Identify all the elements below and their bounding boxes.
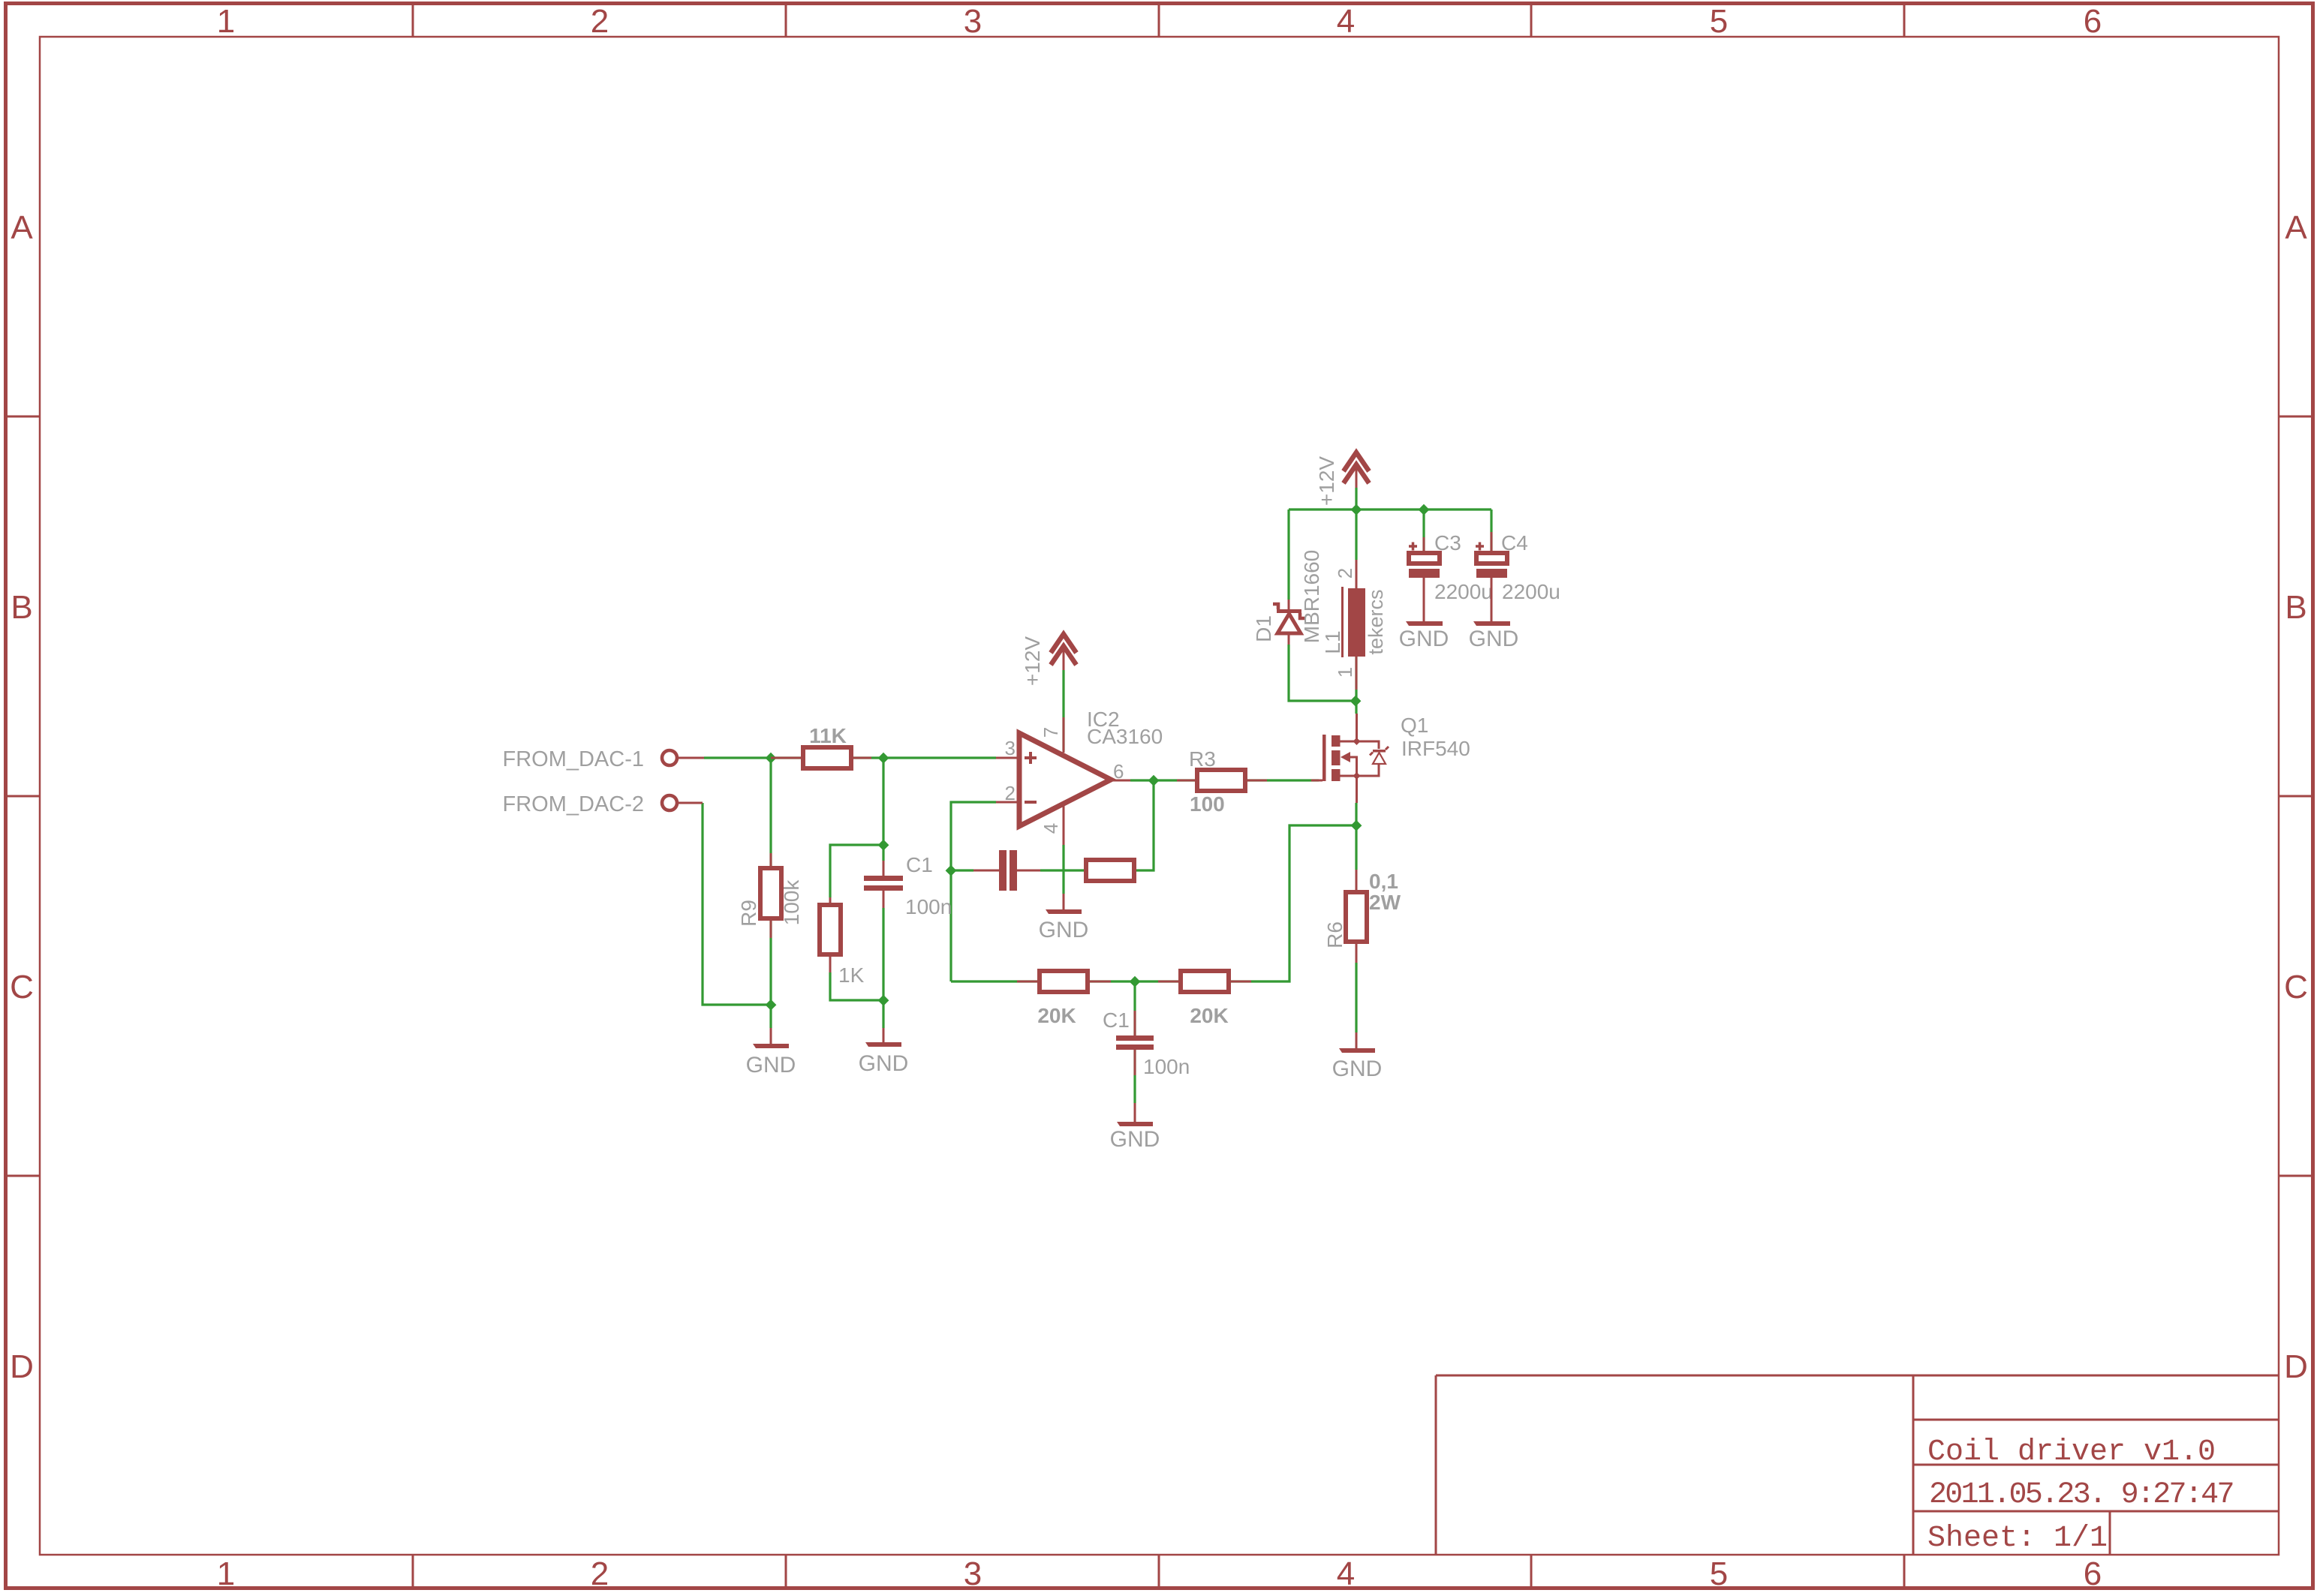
svg-text:B: B — [11, 589, 32, 626]
wire net pin7 supply — [1062, 670, 1064, 750]
svg-text:4: 4 — [1040, 823, 1062, 834]
svg-text:C: C — [10, 969, 34, 1005]
resistor 11K — [771, 724, 871, 768]
svg-text:20K: 20K — [1190, 1004, 1228, 1027]
svg-text:Sheet: 1/1: Sheet: 1/1 — [1927, 1522, 2108, 1555]
capacitor C4 — [1476, 531, 1560, 621]
ground GND (C1a) — [859, 1028, 909, 1076]
svg-text:3: 3 — [964, 1555, 982, 1592]
column labels top 1-6 — [217, 3, 2102, 40]
svg-text:100k: 100k — [780, 879, 803, 926]
svg-text:A: A — [11, 209, 33, 246]
svg-text:R6: R6 — [1323, 921, 1347, 948]
svg-text:0,1: 0,1 — [1369, 870, 1398, 893]
svg-text:MBR1660: MBR1660 — [1300, 550, 1323, 644]
svg-text:B: B — [2285, 589, 2306, 626]
svg-text:IRF540: IRF540 — [1401, 737, 1470, 760]
svg-text:1: 1 — [217, 3, 235, 40]
svg-text:4: 4 — [1337, 1555, 1355, 1592]
svg-text:7: 7 — [1040, 727, 1062, 738]
svg-text:C1: C1 — [906, 853, 933, 876]
svg-text:3: 3 — [964, 3, 982, 40]
svg-text:GND: GND — [1399, 627, 1449, 651]
wire net 1K branch — [830, 845, 883, 1000]
junction node J (drain-L1-D1) — [1350, 696, 1362, 707]
junction node G (pin2 feedback) — [946, 865, 957, 876]
capacitor C1 (input) — [864, 853, 952, 918]
svg-text:2: 2 — [1334, 568, 1356, 579]
svg-text:R9: R9 — [737, 900, 760, 927]
resistor R3 — [1177, 747, 1267, 816]
svg-text:GND: GND — [1110, 1127, 1160, 1152]
svg-text:3: 3 — [1005, 737, 1016, 759]
ground GND (C4) — [1469, 621, 1519, 651]
svg-text:GND: GND — [1469, 627, 1519, 651]
svg-text:6: 6 — [2084, 3, 2102, 40]
column labels bottom 1-6 — [217, 1555, 2102, 1592]
wire net R9 column — [769, 758, 772, 1028]
junction node B (11K-C1a top) — [878, 753, 889, 764]
pad FROM_DAC-2 — [502, 792, 703, 816]
resistor 20K (right) — [1158, 971, 1251, 1027]
svg-text:C3: C3 — [1434, 531, 1461, 555]
svg-text:2200u: 2200u — [1434, 580, 1493, 603]
svg-text:4: 4 — [1337, 3, 1355, 40]
svg-text:+12V: +12V — [1021, 636, 1044, 686]
svg-text:CA3160: CA3160 — [1087, 725, 1163, 748]
ground GND (C1b) — [1110, 1103, 1160, 1152]
svg-text:1K: 1K — [838, 963, 865, 987]
svg-text:C1: C1 — [1103, 1008, 1130, 1032]
svg-text:6: 6 — [2084, 1555, 2102, 1592]
wire net feedback line — [951, 780, 1154, 870]
resistor 1K — [820, 897, 865, 987]
svg-text:5: 5 — [1710, 1555, 1728, 1592]
svg-text:2: 2 — [1005, 782, 1016, 804]
svg-text:GND: GND — [859, 1051, 909, 1076]
junction node C (R9 bottom) — [766, 999, 777, 1011]
wire net 20K line — [951, 825, 1356, 981]
left band row dividers — [5, 416, 40, 1176]
wire net C3 column — [1422, 509, 1425, 553]
svg-text:FROM_DAC-1: FROM_DAC-1 — [502, 747, 644, 771]
svg-text:D: D — [2284, 1348, 2308, 1385]
wire net pin4 ground — [1062, 845, 1064, 894]
transistor Q1 IRF540 — [1311, 714, 1470, 803]
wire net C1b column — [1133, 981, 1136, 1103]
svg-text:100: 100 — [1190, 792, 1225, 816]
svg-text:2: 2 — [591, 3, 609, 40]
svg-text:FROM_DAC-2: FROM_DAC-2 — [502, 792, 644, 816]
ground GND (R9) — [746, 1028, 796, 1078]
svg-text:100n: 100n — [905, 895, 952, 918]
svg-text:5: 5 — [1710, 3, 1728, 40]
ground GND (R6) — [1332, 1032, 1383, 1081]
svg-text:2W: 2W — [1369, 891, 1401, 914]
junction node I (Q1 source) — [1351, 820, 1362, 831]
svg-text:D: D — [10, 1348, 34, 1385]
TITLEBLOCK — [1436, 1375, 2279, 1555]
svg-text:6: 6 — [1113, 760, 1124, 783]
svg-text:Q1: Q1 — [1401, 714, 1428, 737]
svg-text:A: A — [2285, 209, 2307, 246]
op-amp IC2 CA3160 — [996, 708, 1163, 845]
resistor 20K (left) — [1017, 971, 1111, 1027]
wire net L1 column — [1355, 488, 1357, 714]
inductor L1 tekercs — [1321, 560, 1387, 690]
capacitor feedback (unlabeled) — [973, 850, 1040, 891]
svg-text:1: 1 — [1334, 667, 1356, 678]
svg-text:GND: GND — [1039, 918, 1089, 942]
svg-text:2011.05.23. 9:27:47: 2011.05.23. 9:27:47 — [1929, 1478, 2233, 1512]
junction node D (C1a bottom) — [878, 995, 889, 1006]
svg-text:D1: D1 — [1252, 615, 1275, 642]
title block outline — [1436, 1375, 2279, 1555]
svg-text:20K: 20K — [1037, 1004, 1076, 1027]
svg-text:100n: 100n — [1143, 1055, 1190, 1078]
wire net C1a column — [882, 758, 884, 1028]
capacitor C3 — [1409, 531, 1493, 621]
svg-text:2200u: 2200u — [1502, 580, 1560, 603]
svg-text:11K: 11K — [809, 724, 847, 747]
row labels left A-D — [10, 209, 34, 1385]
junction node H (20K mid) — [1130, 976, 1141, 987]
ground GND (C3) — [1399, 621, 1449, 651]
svg-text:+12V: +12V — [1315, 456, 1338, 506]
svg-text:2: 2 — [591, 1555, 609, 1592]
right band row dividers — [2279, 416, 2312, 1176]
pad FROM_DAC-1 — [502, 747, 704, 771]
svg-text:C: C — [2284, 969, 2308, 1005]
CIRCUIT — [502, 452, 1560, 1152]
power +12V (L1) — [1315, 452, 1369, 506]
wire net DAC1 horizontal — [704, 756, 996, 759]
wire net +12V rail — [1289, 508, 1491, 510]
row labels right A-D — [2284, 209, 2308, 1385]
junction node A (11K-R9) — [766, 753, 777, 764]
wire net D1 branch — [1289, 509, 1356, 701]
junction node E (1K top) — [878, 840, 889, 851]
svg-text:GND: GND — [746, 1053, 796, 1078]
wire net output line — [1130, 779, 1319, 781]
ground GND (IC2 pin4) — [1039, 894, 1089, 942]
svg-text:C4: C4 — [1501, 531, 1528, 555]
junction node F (opamp out) — [1148, 775, 1160, 786]
capacitor C1 (filter) — [1103, 1008, 1190, 1078]
resistor feedback (unlabeled) — [1086, 860, 1134, 881]
svg-text:GND: GND — [1332, 1056, 1383, 1081]
top band column dividers — [413, 4, 1904, 37]
wire net C4 column — [1490, 509, 1492, 553]
power +12V (IC2) — [1021, 634, 1076, 686]
resistor R9 — [737, 853, 803, 938]
svg-text:Coil driver v1.0: Coil driver v1.0 — [1927, 1435, 2216, 1469]
wire net DAC2 L-shape — [703, 803, 771, 1005]
junction node L (+12V rail C3) — [1419, 504, 1430, 515]
junction node K (+12V rail L1) — [1351, 504, 1362, 515]
svg-text:tekercs: tekercs — [1365, 589, 1387, 654]
svg-text:R3: R3 — [1189, 747, 1216, 771]
bottom band column dividers — [413, 1555, 1904, 1588]
wire net pin2 riser — [951, 802, 996, 981]
resistor R6 — [1323, 870, 1401, 963]
svg-text:L1: L1 — [1321, 630, 1344, 654]
wire net Q1 source column — [1355, 803, 1357, 1032]
diode D1 MBR1660 — [1252, 550, 1323, 645]
svg-text:1: 1 — [217, 1555, 235, 1592]
